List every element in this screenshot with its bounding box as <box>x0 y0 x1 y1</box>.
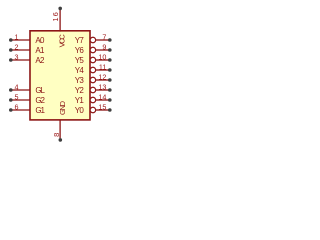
svg-text:11: 11 <box>99 62 106 71</box>
svg-text:Y4: Y4 <box>75 66 85 75</box>
svg-text:14: 14 <box>98 92 106 101</box>
svg-text:VCC: VCC <box>58 34 67 48</box>
svg-text:10: 10 <box>98 52 106 61</box>
svg-text:Y3: Y3 <box>75 76 85 85</box>
svg-text:15: 15 <box>98 102 106 111</box>
svg-text:13: 13 <box>98 82 106 91</box>
svg-text:2: 2 <box>15 42 19 51</box>
svg-text:5: 5 <box>15 92 19 101</box>
svg-text:1: 1 <box>15 32 19 41</box>
svg-text:9: 9 <box>102 42 106 51</box>
svg-text:A1: A1 <box>35 46 45 55</box>
svg-text:Y1: Y1 <box>75 96 85 105</box>
svg-text:A2: A2 <box>35 56 45 65</box>
svg-text:7: 7 <box>102 32 106 41</box>
svg-text:4: 4 <box>15 82 19 91</box>
svg-text:A0: A0 <box>35 36 45 45</box>
svg-text:Y7: Y7 <box>75 36 85 45</box>
svg-text:12: 12 <box>98 72 106 81</box>
svg-text:Y5: Y5 <box>75 56 85 65</box>
svg-text:Y2: Y2 <box>75 86 85 95</box>
svg-text:8: 8 <box>52 133 61 137</box>
svg-text:16: 16 <box>51 11 60 22</box>
svg-text:Y6: Y6 <box>75 46 85 55</box>
svg-text:GND: GND <box>58 100 67 115</box>
svg-text:3: 3 <box>15 52 19 61</box>
svg-text:Y0: Y0 <box>75 106 85 115</box>
svg-text:6: 6 <box>15 102 19 111</box>
